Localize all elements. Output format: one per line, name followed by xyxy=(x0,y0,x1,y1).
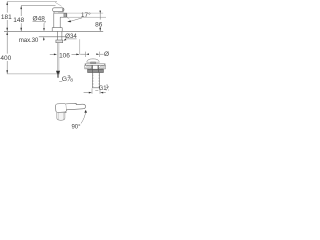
svg-text:17°: 17° xyxy=(81,11,91,19)
dimension G 1 1/4 xyxy=(84,84,112,94)
svg-text:106: 106 xyxy=(59,52,70,59)
hose end level line xyxy=(7,73,60,75)
counter top line xyxy=(4,30,103,32)
extension line top (181 level) xyxy=(7,1,57,3)
dimension 106 xyxy=(50,52,80,59)
threaded shank through counter xyxy=(58,31,62,40)
waste body through counter xyxy=(91,65,93,69)
svg-text:4: 4 xyxy=(108,87,109,93)
svg-text:400: 400 xyxy=(0,55,11,62)
mounting nut xyxy=(56,40,63,43)
plan view: spout pointing to viewer xyxy=(57,112,65,120)
plan view: lever xyxy=(66,103,86,110)
svg-text:90°: 90° xyxy=(71,124,81,130)
svg-text:8: 8 xyxy=(70,77,73,83)
threaded tailpiece G 1 1/4 xyxy=(92,73,99,88)
dimension 181 xyxy=(1,2,12,32)
counter bottom line xyxy=(39,36,66,38)
extension line right of 106 xyxy=(79,39,81,54)
dimension 86 xyxy=(95,11,103,32)
dimension 400 xyxy=(0,32,11,74)
label O34 xyxy=(63,33,77,41)
raised lever ghost line xyxy=(55,2,62,6)
thread ridges xyxy=(92,74,99,86)
faucet handle (lever) xyxy=(53,8,65,12)
drain dimension O64 xyxy=(80,51,116,58)
backnut xyxy=(88,69,104,72)
extension line (148 level) xyxy=(21,5,56,7)
label O48 xyxy=(33,16,46,31)
drain flange xyxy=(85,63,106,65)
faucet body & spout xyxy=(54,12,67,28)
lever tip accent xyxy=(62,8,64,11)
plug stem xyxy=(91,62,96,64)
hose end fitting cone G3/8 xyxy=(56,71,60,74)
svg-text:G: G xyxy=(62,76,67,83)
dimension 148 xyxy=(13,6,24,32)
extension line (spout top level to right) xyxy=(67,12,103,14)
svg-text:181: 181 xyxy=(1,14,12,21)
body bottom accent xyxy=(58,111,67,114)
label G3/8 xyxy=(59,74,73,83)
supply hoses xyxy=(56,43,58,71)
label 17deg with leader to spout xyxy=(67,11,91,22)
counter cross-section with hatching (left block) xyxy=(85,65,92,69)
extension line 86 (spout outlet level to right) xyxy=(67,16,106,18)
90 degree swivel arc xyxy=(81,111,86,123)
svg-text:max.30: max.30 xyxy=(19,37,39,44)
water stream angle line xyxy=(67,17,70,19)
svg-text:148: 148 xyxy=(13,17,24,24)
faucet base xyxy=(52,28,62,32)
plan view: faucet body from above xyxy=(55,102,85,112)
drain pop-up plug dome xyxy=(87,59,100,62)
counter cross-section with hatching (right block) xyxy=(99,65,106,69)
spout outlet xyxy=(64,13,67,17)
label max.30 xyxy=(19,37,45,44)
svg-text:Ø64: Ø64 xyxy=(104,51,109,58)
svg-text:86: 86 xyxy=(95,22,103,29)
